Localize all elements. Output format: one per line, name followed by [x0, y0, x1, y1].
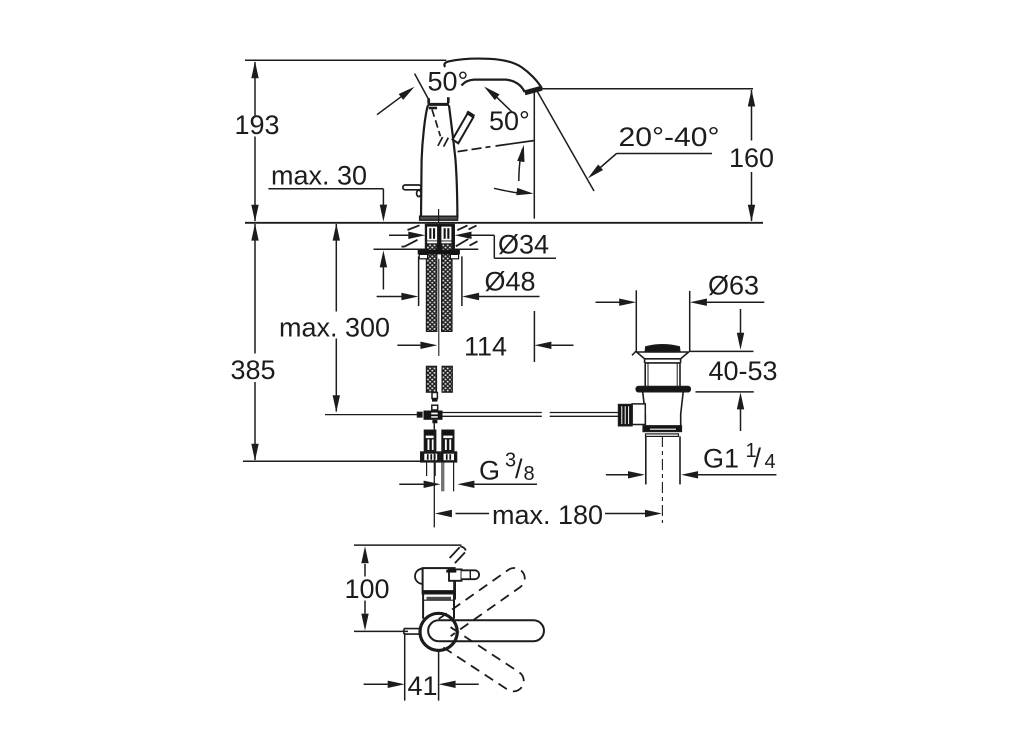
left tab (pull rod, top view) — [404, 629, 421, 635]
horizontal pull rod — [325, 412, 618, 417]
tube tails — [426, 462, 428, 476]
drain flange — [637, 352, 689, 359]
deck / countertop line — [245, 222, 763, 224]
braided supply hoses — [426, 244, 452, 392]
leader arrow to tilted line — [377, 84, 417, 115]
lever handle (solid) — [453, 112, 475, 144]
svg-text:114: 114 — [464, 332, 507, 362]
swivel circle (top view) — [420, 613, 457, 650]
dashed lever lowered position — [458, 141, 534, 152]
neck flange bar — [428, 103, 450, 106]
mounting nut — [418, 250, 460, 259]
spout outlet vertical reference line — [533, 89, 535, 218]
svg-text:385: 385 — [231, 355, 276, 385]
drain upper body — [644, 363, 646, 386]
svg-text:Ø63: Ø63 — [708, 271, 759, 301]
dashed lever axis inside body — [432, 110, 448, 147]
drain centre line — [661, 436, 663, 523]
diam63 dimension — [596, 299, 765, 306]
dimension 100 — [354, 545, 461, 631]
svg-text:50°: 50° — [428, 67, 469, 97]
svg-text:193: 193 — [235, 110, 280, 140]
body right edge — [449, 105, 457, 217]
spout underside curve — [462, 80, 525, 92]
angle arc arrow right — [494, 188, 534, 197]
hose centre line — [438, 259, 440, 356]
water stream line — [538, 92, 595, 191]
svg-text:40-53: 40-53 — [709, 356, 778, 386]
svg-text:160: 160 — [729, 143, 774, 173]
spout outlet face (thick) — [525, 88, 542, 93]
pull rod tee — [424, 405, 443, 429]
svg-text:/: / — [515, 454, 523, 484]
svg-text:G: G — [479, 456, 500, 486]
angle arc arrow up — [517, 144, 527, 181]
svg-text:Ø48: Ø48 — [485, 267, 536, 297]
drain plug cap — [645, 345, 680, 352]
spout outlet level line — [534, 88, 753, 90]
dashed capsule up-right — [439, 564, 529, 636]
faucet centre line — [438, 209, 440, 223]
knurled rod knob — [618, 404, 632, 426]
leader arrow near spout outlet — [482, 84, 512, 112]
svg-text:8: 8 — [524, 463, 535, 485]
top height reference line — [245, 59, 446, 61]
spout capsule (top view) — [428, 620, 544, 641]
pull rod stub above tee — [432, 393, 437, 402]
drain lower body — [643, 392, 684, 426]
dashed capsule down-right — [439, 627, 528, 695]
lever (top view) — [446, 569, 479, 580]
body left edge — [421, 105, 428, 217]
diam63 extension lines — [632, 290, 690, 355]
svg-text:4: 4 — [765, 451, 776, 473]
rod boss — [632, 404, 645, 425]
svg-text:/: / — [754, 443, 762, 473]
svg-text:max. 180: max. 180 — [492, 500, 603, 530]
svg-text:20°-40°: 20°-40° — [619, 122, 720, 152]
dimension 41 — [364, 633, 479, 701]
drain tailpipe — [646, 436, 680, 484]
drain neck — [645, 359, 681, 387]
body housing (top view) — [415, 568, 455, 619]
hatch ticks on axis — [438, 137, 443, 146]
pull rod lower line through fitting — [433, 423, 435, 527]
svg-text:max. 30: max. 30 — [271, 161, 367, 191]
spout top curve — [444, 59, 541, 89]
svg-text:100: 100 — [345, 574, 390, 604]
countertop bottom line — [374, 248, 479, 250]
svg-text:max. 300: max. 300 — [279, 313, 390, 343]
pop-up rod knob — [403, 185, 421, 190]
drain clamp nut — [643, 426, 682, 437]
tilted handle-axis line — [415, 74, 430, 102]
base plate — [420, 216, 458, 220]
basin surface line — [690, 350, 754, 352]
svg-text:41: 41 — [408, 671, 438, 701]
dashed raised lever (top view) — [450, 546, 466, 563]
svg-text:G1: G1 — [703, 444, 739, 474]
hex ends — [421, 452, 440, 462]
rubber seal ring — [636, 386, 691, 392]
svg-text:Ø34: Ø34 — [498, 230, 549, 260]
